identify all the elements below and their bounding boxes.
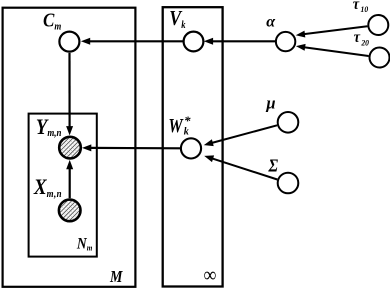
node mu: [278, 112, 299, 133]
svg-text:M: M: [109, 268, 124, 286]
node Y_mn (observed, hatched): [59, 137, 81, 159]
node alpha: [276, 32, 295, 51]
arrowhead into V_k: [204, 38, 213, 45]
arrowhead into Y_mn from X_mn: [66, 160, 73, 169]
node tau20: [370, 48, 390, 68]
wire mu to W_k: [212, 125, 277, 143]
arrowhead into Y_mn from C_m: [66, 126, 73, 135]
arrowhead into W_k from mu: [204, 139, 214, 146]
node C_m: [59, 32, 79, 52]
node V_k: [184, 32, 204, 52]
arrowhead into alpha from tau10: [296, 31, 306, 38]
plate infinity: [163, 7, 223, 286]
node tau10: [368, 15, 388, 35]
wire tau20 to alpha: [304, 47, 369, 56]
arrowhead into Y_mn from W_k: [82, 144, 91, 151]
arrowhead into C_m: [81, 38, 90, 45]
svg-text:W: W: [168, 114, 184, 136]
svg-text:μ: μ: [265, 94, 275, 113]
svg-text:α: α: [266, 14, 276, 31]
node W_k*: [181, 138, 201, 158]
arrowhead into alpha from tau20: [296, 44, 306, 51]
svg-text:k: k: [184, 126, 189, 137]
plate N_m: [29, 114, 97, 257]
wire X_mn to Y_mn: [69, 169, 71, 199]
wire alpha to V_k: [212, 40, 276, 42]
node X_mn (observed, hatched): [59, 200, 81, 222]
wire C_m to Y_mn: [68, 53, 70, 127]
node Sigma: [278, 173, 299, 194]
wire V_k to C_m: [89, 40, 184, 42]
plate M: [3, 8, 136, 287]
wire Sigma to W_k: [213, 159, 278, 180]
wire tau10 to alpha: [303, 26, 367, 34]
svg-text:Σ: Σ: [268, 156, 279, 176]
arrowhead into W_k from Sigma: [204, 155, 214, 162]
svg-text:∞: ∞: [203, 265, 216, 287]
wire W_k to Y_mn: [90, 147, 181, 150]
